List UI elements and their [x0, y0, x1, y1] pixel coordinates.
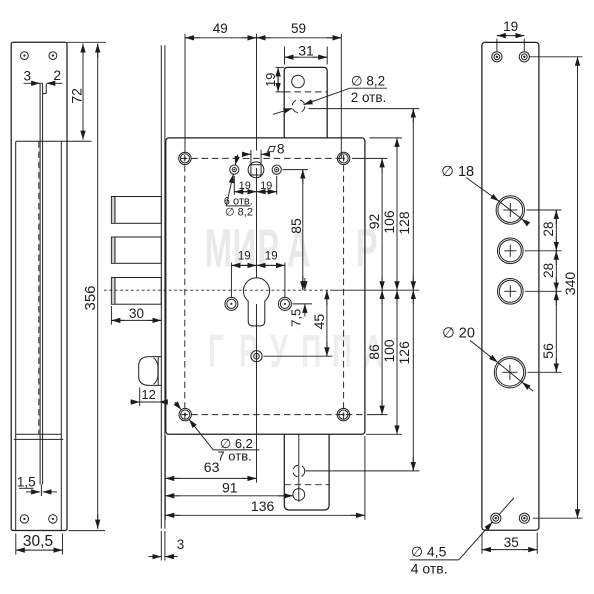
strike screw hole bottom-right — [519, 513, 529, 523]
top tab fold dashed line — [284, 91, 327, 93]
dim 1,5 — [17, 474, 57, 492]
svg-text:128: 128 — [396, 211, 412, 235]
dim 59 — [257, 21, 342, 38]
dim 85 — [283, 170, 309, 291]
svg-text:П: П — [332, 327, 352, 378]
dims 28/28/56 — [525, 210, 562, 372]
bolt hole 3 — [498, 279, 524, 305]
screw hole bottom-right — [49, 515, 57, 523]
svg-text:19: 19 — [238, 251, 251, 263]
svg-text:7 отв.: 7 отв. — [217, 448, 251, 463]
svg-text:Р: Р — [239, 327, 258, 378]
dashed screw rectangle top edge — [181, 157, 344, 159]
svg-text:19: 19 — [503, 19, 518, 34]
svg-text:356: 356 — [82, 285, 99, 310]
dim 30,5 — [16, 533, 63, 554]
dashed centre line of slot — [38, 141, 40, 434]
svg-text:45: 45 — [311, 314, 327, 330]
label d4,5 4 holes — [410, 498, 514, 576]
body screw hole top-right — [337, 152, 349, 164]
svg-text:100: 100 — [381, 339, 397, 363]
svg-text:19: 19 — [260, 180, 272, 192]
top edge extension line — [67, 41, 106, 43]
svg-text:49: 49 — [213, 21, 228, 36]
MIDVIEW — [104, 45, 419, 528]
right-side extension lines — [306, 109, 420, 471]
faceplate raised strip left edge — [15, 141, 17, 530]
dim 2 (slit top right) — [46, 68, 62, 83]
top tab hole dashed — [292, 100, 305, 113]
svg-text:28: 28 — [541, 221, 556, 236]
strip top edge + extension line — [16, 140, 92, 142]
latch hole (d20) — [494, 357, 525, 388]
body screw hole top-left — [179, 152, 191, 164]
svg-text:1,5: 1,5 — [17, 474, 36, 489]
svg-text:19: 19 — [263, 73, 278, 87]
svg-text:86: 86 — [366, 344, 382, 360]
dim 19/19 spindle row — [234, 176, 276, 195]
dim 72 — [68, 44, 84, 140]
bottom edge extension line — [69, 530, 106, 532]
strike screw hole bottom-left — [491, 513, 501, 523]
svg-text:91: 91 — [222, 480, 238, 496]
svg-text:56: 56 — [540, 343, 556, 359]
svg-text:4 отв.: 4 отв. — [411, 560, 448, 576]
dim 92 — [366, 158, 382, 290]
svg-text:106: 106 — [381, 210, 397, 234]
svg-text:Р: Р — [257, 219, 279, 278]
euro cylinder keyhole — [243, 278, 269, 326]
faceplate outer plate — [11, 42, 67, 530]
svg-text:Г: Г — [208, 327, 224, 378]
slit notch line — [45, 84, 47, 94]
svg-text:∅ 4,5: ∅ 4,5 — [411, 544, 447, 560]
body screw hole bottom-left — [179, 408, 191, 420]
dashed screw rectangle bottom edge — [181, 414, 365, 416]
strike plate outline — [482, 42, 539, 530]
svg-text:∅ 18: ∅ 18 — [441, 164, 474, 180]
horizontal dashed centre line — [104, 289, 330, 291]
bottom tab centre line — [298, 434, 300, 488]
faceplate edge strip left line — [160, 45, 162, 528]
svg-text:∅ 8,2: ∅ 8,2 — [351, 74, 385, 89]
spindle circle — [248, 162, 264, 178]
strip shoulder line B — [14, 438, 63, 440]
latch bolt — [139, 357, 162, 386]
svg-text:19: 19 — [265, 251, 278, 263]
slit left line — [39, 84, 41, 485]
dim 8 (square) — [242, 142, 285, 163]
body screw hole bottom-right — [337, 408, 349, 420]
dashed screw rectangle left edge — [184, 155, 186, 420]
lock body box — [166, 138, 365, 434]
svg-text:28: 28 — [541, 263, 556, 278]
dim 100 — [381, 290, 397, 434]
top tab hole solid — [292, 75, 305, 88]
dim 49/59 extension lines — [185, 34, 341, 158]
spindle square 8mm — [251, 165, 261, 175]
bottom tab fold dashed line — [284, 484, 329, 486]
screw hole top-left — [21, 52, 29, 60]
svg-text:2 отв.: 2 отв. — [351, 90, 387, 105]
dim 91 — [165, 480, 293, 496]
label 6 holes d8,2 — [224, 155, 253, 219]
dim 49 — [185, 21, 257, 38]
svg-text:340: 340 — [562, 272, 578, 296]
dim 126 — [396, 290, 413, 471]
LEFTVIEW — [11, 42, 106, 530]
strip shoulder line A — [16, 433, 62, 435]
dim 3 (plate thickness) — [149, 531, 185, 561]
screw hole bottom-left — [20, 515, 28, 523]
svg-text:У: У — [270, 327, 288, 378]
bottom mounting tab — [284, 434, 329, 510]
dim 35 — [482, 533, 537, 554]
dim 19 (strike plate) — [497, 19, 524, 51]
svg-text:М: М — [205, 219, 232, 278]
slit right line — [42, 84, 44, 485]
dim 63 — [165, 459, 256, 478]
svg-text:85: 85 — [288, 218, 304, 234]
svg-text:И: И — [233, 219, 256, 278]
slit lower single line — [40, 485, 42, 497]
dim 19/19 keyhole row — [231, 251, 285, 298]
label d8,2 2 holes — [273, 74, 387, 115]
svg-text:12: 12 — [141, 387, 155, 402]
dim 128 — [396, 109, 413, 291]
label d18 — [441, 164, 528, 224]
label d20 — [442, 325, 533, 391]
keyhole side hole left — [225, 297, 238, 310]
top mounting tab — [284, 67, 327, 137]
svg-text:П: П — [301, 327, 321, 378]
svg-text:59: 59 — [291, 21, 306, 36]
dim 7,5 — [289, 278, 313, 327]
dim 30 — [111, 306, 161, 325]
label d6,2 7 holes — [175, 402, 259, 463]
dim 19 (tab) — [263, 67, 284, 92]
bolt hole 1 (d18) — [496, 196, 524, 224]
svg-text:19: 19 — [239, 180, 251, 192]
dim 106 — [381, 138, 397, 290]
svg-text:30: 30 — [129, 306, 144, 321]
hole below keyhole — [251, 351, 262, 362]
spindle side hole right — [272, 165, 281, 174]
faceplate raised strip right edge — [60, 141, 62, 530]
svg-text:8: 8 — [277, 142, 285, 157]
svg-text:35: 35 — [504, 535, 519, 550]
keyhole centre extension line — [256, 168, 258, 278]
deadbolt pin 2 — [111, 237, 161, 263]
dashed screw rectangle right edge — [343, 155, 345, 420]
deadbolt pin 1 — [111, 197, 161, 224]
screw hole top-right — [49, 52, 57, 60]
svg-text:3: 3 — [177, 537, 185, 552]
svg-text:∅ 8,2: ∅ 8,2 — [225, 206, 253, 218]
svg-text:3: 3 — [24, 69, 32, 84]
dim 3 (slit top left) — [24, 69, 43, 84]
svg-text:63: 63 — [204, 459, 220, 475]
dim 45 — [264, 290, 333, 356]
svg-text:136: 136 — [251, 498, 275, 514]
WATERMARK — [205, 219, 383, 377]
svg-text:72: 72 — [68, 88, 84, 104]
deadbolt pin 3 — [111, 278, 161, 305]
svg-text:7,5: 7,5 — [289, 309, 304, 327]
dim 356 — [82, 44, 99, 529]
strike screw hole top-left — [492, 52, 502, 62]
dim 86 — [366, 290, 382, 414]
faceplate edge strip right line — [164, 45, 166, 528]
svg-text:∅ 20: ∅ 20 — [442, 325, 475, 341]
svg-text:31: 31 — [298, 42, 314, 58]
spindle side hole left — [230, 165, 239, 174]
RIGHTVIEW — [482, 42, 539, 530]
slit notch connector — [43, 93, 47, 95]
dim 12 — [131, 387, 169, 406]
bolt hole 2 — [498, 238, 524, 264]
strike screw hole top-right — [519, 52, 529, 62]
bottom tab hole dashed — [293, 465, 305, 477]
bottom tab hole solid — [293, 487, 305, 502]
dim 136 — [165, 436, 365, 520]
svg-text:92: 92 — [366, 214, 382, 230]
dim 340 — [530, 57, 583, 518]
svg-text:30,5: 30,5 — [23, 533, 53, 550]
svg-text:126: 126 — [396, 341, 412, 365]
dim 31 — [285, 42, 328, 64]
keyhole side hole right — [278, 297, 291, 310]
svg-text:2: 2 — [53, 68, 61, 83]
